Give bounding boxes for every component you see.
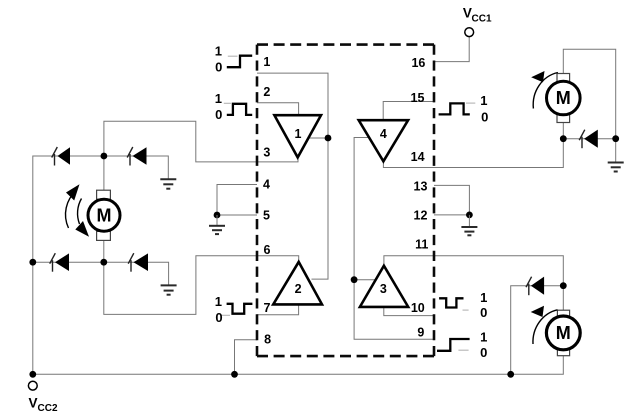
svg-text:1: 1 (295, 127, 302, 141)
svg-text:0: 0 (480, 305, 487, 320)
svg-text:11: 11 (415, 237, 428, 251)
svg-text:8: 8 (264, 333, 271, 347)
svg-text:9: 9 (417, 326, 424, 340)
svg-text:7: 7 (264, 301, 271, 315)
svg-text:1: 1 (215, 294, 222, 309)
svg-text:M: M (556, 88, 571, 108)
svg-text:4: 4 (380, 127, 387, 141)
svg-text:2: 2 (263, 85, 270, 99)
svg-text:4: 4 (263, 178, 270, 192)
svg-text:1: 1 (480, 93, 487, 108)
svg-text:M: M (97, 205, 112, 225)
svg-text:V: V (29, 396, 38, 411)
svg-text:0: 0 (215, 310, 222, 325)
svg-text:0: 0 (215, 107, 222, 122)
svg-text:15: 15 (411, 91, 425, 105)
svg-text:CC1: CC1 (472, 14, 492, 25)
svg-text:14: 14 (411, 150, 425, 164)
svg-text:0: 0 (215, 60, 222, 75)
svg-text:2: 2 (295, 282, 302, 296)
svg-text:10: 10 (411, 301, 425, 315)
svg-text:1: 1 (215, 91, 222, 106)
svg-text:1: 1 (215, 43, 222, 58)
svg-text:1: 1 (480, 330, 487, 345)
svg-text:12: 12 (414, 209, 428, 223)
svg-text:1: 1 (480, 290, 487, 305)
svg-text:3: 3 (263, 146, 270, 160)
svg-text:0: 0 (480, 345, 487, 360)
svg-text:5: 5 (263, 209, 270, 223)
svg-text:CC2: CC2 (38, 403, 58, 414)
svg-text:3: 3 (380, 282, 387, 296)
svg-text:M: M (556, 323, 571, 343)
svg-text:1: 1 (263, 55, 270, 69)
svg-text:16: 16 (411, 56, 425, 70)
svg-text:0: 0 (481, 109, 488, 124)
svg-text:6: 6 (264, 243, 271, 257)
svg-text:13: 13 (414, 179, 428, 193)
